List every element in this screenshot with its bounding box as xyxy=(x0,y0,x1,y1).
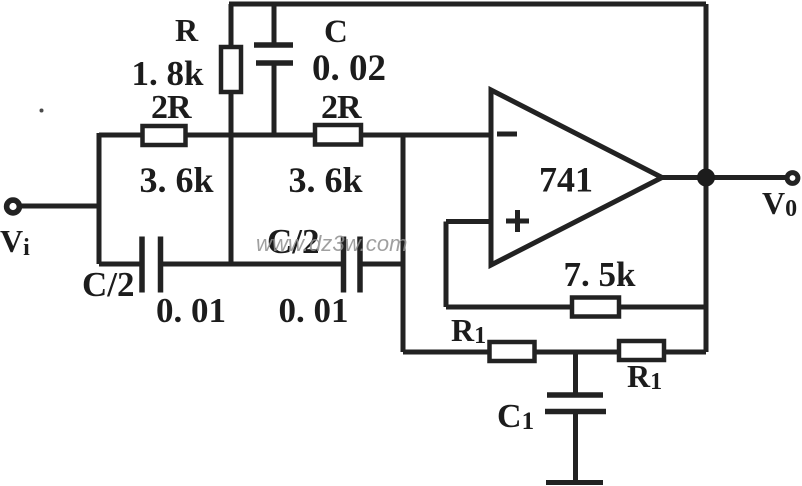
capacitor C1 plates xyxy=(545,395,606,412)
svg-text:2R: 2R xyxy=(321,89,362,126)
svg-text:0. 01: 0. 01 xyxy=(156,291,226,330)
resistor R1 right body xyxy=(619,341,664,360)
capacitor C bottom lead xyxy=(272,65,277,135)
wire plus input xyxy=(446,219,491,224)
svg-text:V0: V0 xyxy=(762,185,797,222)
svg-text:www.dz3w.com: www.dz3w.com xyxy=(256,231,408,256)
wire output xyxy=(662,175,786,180)
resistor R1 left body xyxy=(490,342,535,361)
svg-text:C: C xyxy=(324,14,348,50)
svg-text:Vi: Vi xyxy=(0,223,30,261)
svg-text:0. 02: 0. 02 xyxy=(312,48,386,89)
svg-text:C1: C1 xyxy=(497,398,534,435)
terminal Vi circle xyxy=(7,200,20,213)
terminal Vo circle xyxy=(787,173,798,184)
wire middle horizontal to minus input xyxy=(99,133,490,138)
svg-text:0. 01: 0. 01 xyxy=(279,291,349,330)
wire twin-T center vertical (R branch) xyxy=(229,4,234,264)
svg-text:2R: 2R xyxy=(151,89,192,126)
wire C1 bottom lead xyxy=(573,413,578,481)
resistor R1.8k vertical body xyxy=(221,47,241,92)
svg-text:C/2: C/2 xyxy=(82,265,135,304)
wire 7.5k feedback xyxy=(446,305,706,310)
capacitor C top lead xyxy=(272,4,277,43)
resistor 2R first body xyxy=(143,126,186,145)
svg-text:R: R xyxy=(175,12,199,48)
wire top feedback xyxy=(229,2,706,7)
wire R1 row xyxy=(403,350,706,355)
svg-text:R1: R1 xyxy=(627,358,662,395)
wire bottom twin-T right xyxy=(362,262,403,267)
wire right feedback vertical xyxy=(704,4,709,352)
node output junction dot xyxy=(697,169,715,187)
wire bottom twin-T left xyxy=(99,262,140,267)
svg-text:7. 5k: 7. 5k xyxy=(564,255,637,294)
resistor 7.5k body xyxy=(572,298,619,317)
op-amp plus sign xyxy=(506,210,529,232)
wire right branch vertical xyxy=(401,135,406,352)
svg-text:3. 6k: 3. 6k xyxy=(140,160,214,200)
wire left vertical xyxy=(97,133,102,264)
resistor 2R second body xyxy=(315,125,361,145)
capacitor C/2 second plates xyxy=(344,237,361,293)
ground xyxy=(546,480,603,485)
svg-text:R1: R1 xyxy=(451,312,486,349)
wire plus input vertical xyxy=(444,222,449,308)
capacitor C/2 first plates xyxy=(142,237,161,293)
wire C1 top lead xyxy=(573,352,578,393)
op-amp minus sign xyxy=(497,132,517,137)
op-amp U1 741 triangle xyxy=(491,90,662,265)
capacitor C plates xyxy=(254,45,293,63)
wire bottom twin-T middle xyxy=(163,262,341,267)
stray ink speck xyxy=(40,109,44,113)
svg-text:3. 6k: 3. 6k xyxy=(289,160,363,200)
svg-text:741: 741 xyxy=(539,160,593,200)
wire from Vi terminal xyxy=(21,204,99,209)
svg-text:1. 8k: 1. 8k xyxy=(132,54,205,93)
